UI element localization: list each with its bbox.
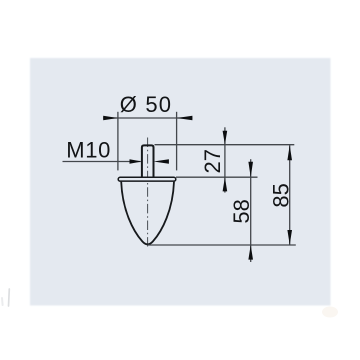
dim 85 arrow top (287, 145, 292, 160)
dome body (121, 182, 174, 245)
svg-text:M10: M10 (66, 137, 111, 162)
dim Ø50 extension line left (117, 112, 119, 171)
dim 58 arrow top (248, 162, 253, 177)
stud-top extension line (155, 144, 295, 146)
svg-text:Ø 50: Ø 50 (120, 92, 173, 117)
dim 27 arrow top (223, 131, 228, 145)
dim 58 line (250, 159, 252, 262)
flange-top extension line (176, 176, 258, 178)
dim 85 line (289, 145, 291, 245)
panel background (30, 58, 331, 306)
stray mark left margin (2, 289, 9, 306)
dim 58 arrow bottom (248, 245, 253, 260)
dim Ø50 extension line right (176, 112, 178, 171)
smudge bottom-right (322, 307, 338, 318)
M10 leader line (63, 161, 141, 163)
dim Ø50 arrow right (177, 116, 193, 121)
stud M10 (142, 145, 154, 177)
svg-text:58: 58 (229, 199, 254, 223)
dim 27 line (224, 127, 226, 192)
M10 arrow left (130, 159, 142, 163)
centerline (147, 138, 149, 247)
bottom extension line (148, 244, 296, 246)
svg-text:85: 85 (268, 183, 293, 207)
dim 85 arrow bottom (287, 230, 292, 245)
dim 27 arrow bottom (223, 177, 228, 191)
M10 arrow right (154, 159, 169, 163)
dim Ø50 arrow left (103, 116, 118, 121)
flange (118, 177, 176, 181)
svg-text:27: 27 (200, 149, 225, 173)
dim Ø50 dimension line (103, 117, 192, 119)
